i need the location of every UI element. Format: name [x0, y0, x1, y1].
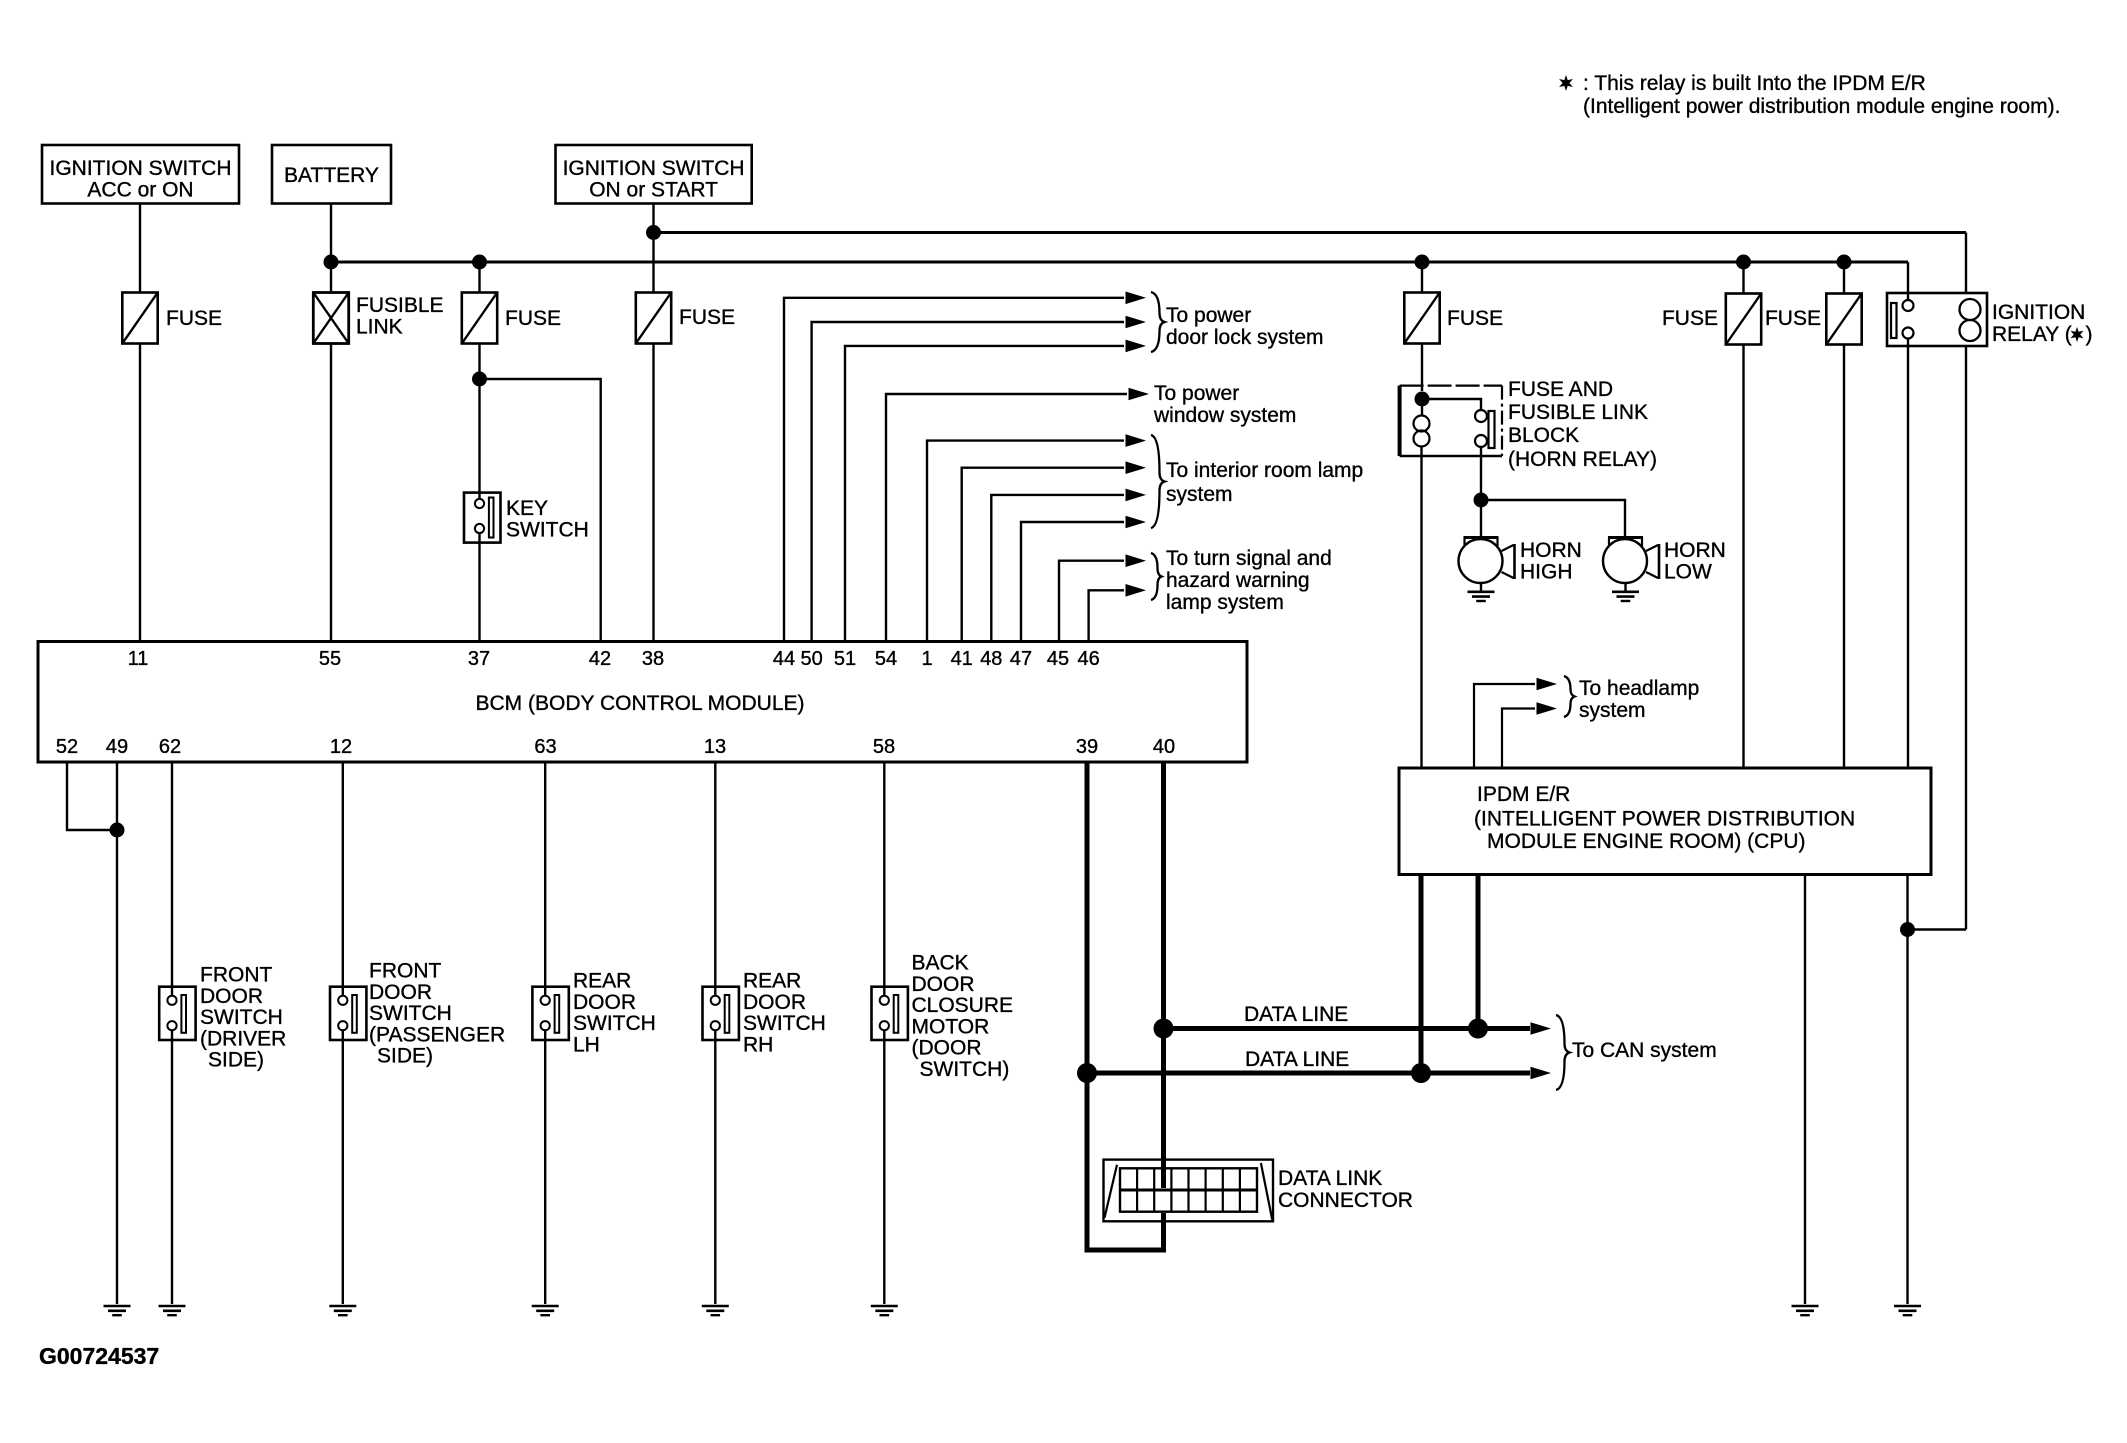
svg-text:lamp system: lamp system [1166, 591, 1284, 614]
wire horn fuse into relay block [1421, 344, 1423, 392]
svg-text:FUSE: FUSE [1662, 307, 1718, 330]
svg-text:REAR: REAR [743, 970, 801, 993]
door switch S1 FRONT DOOR SWITCH (DRIVER SIDE) [159, 987, 195, 1040]
wire upper bus drop to ignition relay coil [1965, 233, 1967, 294]
wire battery bus drop to ignition relay contact [1907, 262, 1909, 299]
svg-text:FUSIBLE LINK: FUSIBLE LINK [1508, 401, 1648, 424]
block IGNITION SWITCH ON or START [556, 145, 752, 204]
svg-text:system: system [1166, 483, 1233, 506]
wire bus to fuse F5 [1742, 262, 1744, 294]
wire fuse F6 to IPDM [1843, 345, 1845, 769]
junction node IPDM data line 1 [1468, 1019, 1488, 1039]
wire BCM pin 49 to ground [116, 762, 118, 1304]
svg-text:SWITCH: SWITCH [200, 1006, 283, 1029]
svg-text:58: 58 [873, 736, 895, 758]
svg-text:DOOR: DOOR [912, 973, 975, 996]
wire IPDM/relay to ground G8 [1906, 875, 1908, 1305]
svg-text:55: 55 [319, 648, 341, 670]
svg-text:MOTOR: MOTOR [912, 1015, 990, 1038]
svg-text:FUSE: FUSE [679, 306, 735, 329]
junction node battery bus at fusible link [324, 255, 339, 270]
arrow to power door lock 2 [1126, 316, 1147, 329]
brace interior lamp group [1151, 435, 1165, 528]
svg-text:G00724537: G00724537 [39, 1343, 159, 1369]
svg-text:FRONT: FRONT [369, 960, 441, 983]
arrow to power door lock 1 [1126, 292, 1147, 305]
arrow data line 2 to CAN [1531, 1067, 1552, 1080]
svg-text:(INTELLIGENT POWER DISTRIBUTIO: (INTELLIGENT POWER DISTRIBUTION [1474, 808, 1855, 831]
svg-text:(HORN RELAY): (HORN RELAY) [1508, 448, 1657, 471]
arrow to headlamp 2 [1537, 702, 1558, 715]
horn relay contact [1422, 399, 1495, 448]
svg-text:To headlamp: To headlamp [1579, 677, 1699, 700]
svg-text:54: 54 [875, 648, 897, 670]
ground of horn HORN LOW [1612, 592, 1639, 601]
svg-text:HORN: HORN [1520, 539, 1582, 562]
svg-text:1: 1 [921, 648, 932, 670]
wire ignition relay coil down [1965, 346, 1967, 930]
wire BCM pin 13 to S4 REAR DOOR SWITCH RH [714, 762, 716, 996]
svg-text:DOOR: DOOR [200, 985, 263, 1008]
svg-text:CONNECTOR: CONNECTOR [1278, 1189, 1413, 1212]
arrow interior lamp 2 [1126, 461, 1147, 474]
door switch S5 BACK DOOR CLOSURE MOTOR (DOOR SWITCH) [872, 987, 908, 1040]
svg-text:SWITCH: SWITCH [369, 1002, 452, 1025]
svg-text:LOW: LOW [1664, 561, 1712, 584]
wire IPDM to data line 2 [1419, 875, 1424, 1074]
wire BCM pin 47 to interior lamp [1021, 522, 1124, 642]
wire horn relay coil to IPDM [1420, 447, 1422, 769]
svg-text:DOOR: DOOR [369, 981, 432, 1004]
svg-text:38: 38 [642, 648, 664, 670]
wire S4 REAR DOOR SWITCH RH to ground [714, 1031, 716, 1305]
brace turn signal group [1151, 553, 1162, 600]
wire BCM pin 12 to S2 FRONT DOOR SWITCH (PASSENGER SIDE) [342, 762, 344, 996]
wire BCM pin 50 to door lock [812, 322, 1124, 642]
arrow interior lamp 1 [1126, 434, 1147, 447]
wire BCM pin 44 to door lock [784, 298, 1124, 642]
junction node relay coil / IPDM wire [1900, 922, 1915, 937]
relay K1 IGNITION RELAY [1887, 293, 1987, 346]
junction node data line 1 [1154, 1019, 1174, 1039]
svg-text:DATA LINE: DATA LINE [1244, 1003, 1348, 1026]
fuse and fusible link block (horn relay) [1400, 386, 1502, 456]
wire IGN ACC to fuse [139, 204, 141, 294]
wire S5 BACK DOOR CLOSURE MOTOR (DOOR SWITCH) to ground [883, 1031, 885, 1305]
wire IPDM to ground G7 [1804, 875, 1806, 1305]
brace door lock group [1151, 292, 1165, 352]
horn HORN HIGH [1459, 538, 1515, 592]
arrow data line 1 to CAN [1531, 1022, 1552, 1035]
door switch S2 FRONT DOOR SWITCH (PASSENGER SIDE) [330, 987, 366, 1040]
fuse F3 (ignition ON/START) [636, 293, 671, 344]
ground of door switch S2 FRONT DOOR SWITCH (PASSENGER SIDE) [329, 1306, 356, 1315]
svg-text:42: 42 [589, 648, 611, 670]
wire S2 FRONT DOOR SWITCH (PASSENGER SIDE) to ground [342, 1031, 344, 1305]
data link connector [1104, 1160, 1274, 1222]
wire to HORN HIGH [1480, 500, 1482, 538]
svg-text:SWITCH): SWITCH) [920, 1058, 1010, 1081]
wire tap to BCM pin 42 [480, 379, 601, 642]
svg-text:BATTERY: BATTERY [284, 164, 379, 187]
ground of door switch S4 REAR DOOR SWITCH RH [702, 1306, 729, 1315]
svg-text:system: system [1579, 699, 1646, 722]
junction node pins 52/49 [110, 823, 125, 838]
svg-text:HIGH: HIGH [1520, 561, 1573, 584]
svg-text:door lock system: door lock system [1166, 326, 1324, 349]
svg-text:11: 11 [128, 648, 149, 670]
svg-text:IGNITION SWITCH: IGNITION SWITCH [563, 157, 745, 180]
svg-text:47: 47 [1010, 648, 1032, 670]
ground of door switch S1 FRONT DOOR SWITCH (DRIVER SIDE) [159, 1306, 186, 1315]
star symbol in relay label [2071, 327, 2084, 342]
svg-text:46: 46 [1077, 648, 1099, 670]
wire fuse F2 to key switch [478, 344, 480, 499]
wire DATA LINE 1 [1164, 1026, 1531, 1031]
wire BCM pin 41 to interior lamp [962, 468, 1124, 642]
svg-text:MODULE ENGINE ROOM) (CPU): MODULE ENGINE ROOM) (CPU) [1487, 830, 1806, 853]
block BATTERY [272, 145, 391, 204]
svg-text:(DOOR: (DOOR [912, 1037, 982, 1060]
wire BCM pin 62 to S1 FRONT DOOR SWITCH (DRIVER SIDE) [171, 762, 173, 996]
horn HORN LOW [1603, 538, 1659, 592]
wire fuse F3 to BCM pin 38 [652, 344, 654, 642]
block BCM (BODY CONTROL MODULE) [38, 642, 1247, 763]
svg-text:37: 37 [468, 648, 490, 670]
door switch S4 REAR DOOR SWITCH RH [703, 987, 739, 1040]
fuse F5 (IPDM) [1726, 294, 1761, 345]
fuse F4 (horn) [1404, 293, 1439, 344]
junction node horn feed [1474, 493, 1489, 508]
svg-text:ACC or ON: ACC or ON [87, 179, 193, 202]
svg-text:DOOR: DOOR [743, 991, 806, 1014]
arrow turn signal 1 [1126, 554, 1147, 567]
svg-text:41: 41 [951, 648, 973, 670]
svg-text:48: 48 [980, 648, 1002, 670]
junction node IPDM data line 2 [1411, 1063, 1431, 1083]
wire S3 REAR DOOR SWITCH LH to ground [544, 1031, 546, 1305]
ground G8 (ignition relay) [1894, 1306, 1921, 1315]
svg-text:SWITCH: SWITCH [506, 519, 589, 542]
ground of door switch S3 REAR DOOR SWITCH LH [532, 1306, 559, 1315]
svg-text:FUSE AND: FUSE AND [1508, 378, 1613, 401]
svg-text:SIDE): SIDE) [208, 1049, 264, 1072]
wire relay coil to IPDM ground wire [1908, 928, 1967, 930]
wire BCM pin 51 to door lock [845, 346, 1124, 642]
wire ignition relay contact to IPDM [1907, 339, 1909, 769]
svg-text:To CAN system: To CAN system [1572, 1039, 1717, 1062]
arrow to headlamp 1 [1537, 678, 1558, 691]
svg-text:39: 39 [1076, 736, 1098, 758]
svg-text:To turn signal and: To turn signal and [1166, 547, 1332, 570]
wire IPDM to data line 1 [1476, 875, 1481, 1029]
svg-text:hazard warning: hazard warning [1166, 569, 1310, 592]
svg-text:SIDE): SIDE) [377, 1045, 433, 1068]
wire fuse F5 to IPDM [1742, 345, 1744, 769]
junction node horn relay coil/contact [1415, 392, 1430, 407]
ground of door switch S5 BACK DOOR CLOSURE MOTOR (DOOR SWITCH) [871, 1306, 898, 1315]
wire IPDM to headlamp 1 [1474, 684, 1535, 768]
key switch [464, 493, 501, 543]
svg-text:(Intelligent power distributio: (Intelligent power distribution module e… [1583, 95, 2060, 118]
svg-text:): ) [2086, 323, 2093, 346]
svg-text:50: 50 [800, 648, 822, 670]
svg-text:DATA LINK: DATA LINK [1278, 1167, 1382, 1190]
ignition relay contact points [1903, 300, 1914, 311]
svg-text:To power: To power [1154, 382, 1239, 405]
svg-text:44: 44 [773, 648, 795, 670]
ground G7 (IPDM) [1792, 1306, 1819, 1315]
arrow interior lamp 3 [1126, 489, 1147, 502]
svg-text:: This relay is built Into the: : This relay is built Into the IPDM E/R [1583, 72, 1926, 95]
fuse F1 (ignition ACC) [122, 293, 157, 344]
fusible link FL1 [313, 293, 348, 344]
svg-text:KEY: KEY [506, 497, 548, 520]
junction node battery bus at fuse F6 [1837, 255, 1852, 270]
arrow interior lamp 4 [1126, 516, 1147, 529]
junction node IGN ON/START bus [646, 225, 661, 240]
svg-text:LH: LH [573, 1033, 600, 1056]
wire BCM pin 52 to pin 49 join [67, 762, 113, 830]
svg-text:To interior room lamp: To interior room lamp [1166, 459, 1363, 482]
ground of horn HORN HIGH [1468, 592, 1495, 601]
svg-text:13: 13 [704, 736, 726, 758]
fuse F2 (key switch feed) [462, 293, 497, 344]
svg-text:FUSE: FUSE [1765, 307, 1821, 330]
wire S1 FRONT DOOR SWITCH (DRIVER SIDE) to ground [171, 1031, 173, 1305]
svg-text:IGNITION: IGNITION [1992, 301, 2085, 324]
wire BCM pin 46 to turn signal [1089, 590, 1124, 641]
block IGNITION SWITCH ACC or ON [42, 145, 239, 204]
wire BCM pin 48 to interior lamp [991, 495, 1124, 642]
svg-text:LINK: LINK [356, 316, 403, 339]
wire upper bus (ignition ON/START feed) [654, 231, 1967, 234]
svg-text:(DRIVER: (DRIVER [200, 1027, 286, 1050]
svg-text:FUSE: FUSE [1447, 307, 1503, 330]
wire IGN ON/START down to fuse [652, 204, 654, 293]
svg-text:DOOR: DOOR [573, 991, 636, 1014]
svg-text:52: 52 [56, 736, 78, 758]
svg-text:HORN: HORN [1664, 539, 1726, 562]
svg-text:FUSIBLE: FUSIBLE [356, 294, 444, 317]
ground G1 (pin 49) [104, 1306, 131, 1315]
wire DATA LINE 2 [1087, 1071, 1530, 1076]
svg-text:45: 45 [1047, 648, 1069, 670]
arrow turn signal 2 [1126, 584, 1147, 597]
svg-text:(PASSENGER: (PASSENGER [369, 1023, 505, 1046]
brace headlamp [1564, 676, 1575, 717]
junction node battery bus at horn fuse [1415, 255, 1430, 270]
svg-text:63: 63 [534, 736, 556, 758]
svg-text:SWITCH: SWITCH [743, 1012, 826, 1035]
ignition relay coil [1960, 299, 1981, 320]
wire BCM pin 58 to S5 BACK DOOR CLOSURE MOTOR (DOOR SWITCH) [883, 762, 885, 996]
junction node data line 2 [1077, 1063, 1097, 1083]
svg-text:51: 51 [834, 648, 856, 670]
wire bus to horn fuse [1421, 262, 1423, 293]
svg-text:BACK: BACK [912, 952, 969, 975]
svg-text:FRONT: FRONT [200, 964, 272, 987]
wire BCM pin 1 to interior lamp [927, 441, 1124, 642]
svg-text:SWITCH: SWITCH [573, 1012, 656, 1035]
svg-text:49: 49 [106, 736, 128, 758]
wire bus to fuse F2 [478, 262, 480, 293]
svg-text:BCM (BODY CONTROL MODULE): BCM (BODY CONTROL MODULE) [475, 692, 804, 715]
arrow to power door lock 3 [1126, 340, 1147, 353]
wire lower bus (battery feed) [331, 261, 1908, 264]
svg-text:DATA LINE: DATA LINE [1245, 1048, 1349, 1071]
svg-text:REAR: REAR [573, 970, 631, 993]
block IPDM E/R (CPU) [1399, 768, 1931, 875]
wire BCM pin 40 (data) to data link connector [1161, 762, 1166, 1188]
svg-text:CLOSURE: CLOSURE [912, 994, 1014, 1017]
wire fuse F1 to BCM pin 11 [139, 344, 141, 642]
svg-text:BLOCK: BLOCK [1508, 424, 1579, 447]
wire BATTERY down [330, 204, 332, 293]
wire BCM pin 45 to turn signal [1059, 561, 1124, 642]
wire IPDM to headlamp 2 [1502, 709, 1535, 769]
wire fusible link to BCM pin 55 [330, 344, 332, 642]
horn relay coil [1414, 399, 1430, 447]
svg-text:FUSE: FUSE [505, 307, 561, 330]
svg-text:window system: window system [1153, 404, 1296, 427]
svg-text:ON or START: ON or START [589, 179, 718, 202]
wire bus to fuse F6 [1843, 262, 1845, 294]
wire to HORN LOW [1481, 500, 1625, 538]
arrow to power window [1129, 388, 1150, 401]
wire BCM pin 63 to S3 REAR DOOR SWITCH LH [544, 762, 546, 996]
wire horn relay contact to horns [1480, 447, 1482, 500]
fuse F6 (IPDM) [1826, 294, 1861, 345]
svg-text:IPDM E/R: IPDM E/R [1477, 783, 1570, 806]
brace CAN system [1556, 1015, 1570, 1090]
junction node battery bus at fuse F5 [1736, 255, 1751, 270]
svg-text:RELAY (: RELAY ( [1992, 323, 2072, 346]
junction node pin 42 tap [472, 372, 487, 387]
svg-text:RH: RH [743, 1033, 773, 1056]
star symbol in note [1559, 75, 1573, 91]
svg-text:FUSE: FUSE [166, 307, 222, 330]
svg-text:12: 12 [330, 736, 352, 758]
ignition relay contact bar [1891, 303, 1897, 338]
svg-text:IGNITION SWITCH: IGNITION SWITCH [50, 157, 232, 180]
door switch S3 REAR DOOR SWITCH LH [532, 987, 568, 1040]
wire BCM pin 39 (data) to data link connector [1087, 762, 1164, 1250]
svg-text:62: 62 [159, 736, 181, 758]
svg-text:To power: To power [1166, 304, 1251, 327]
svg-text:40: 40 [1153, 736, 1175, 758]
junction node battery bus at fuse F2 [472, 255, 487, 270]
wire key switch to BCM pin 37 [478, 534, 480, 642]
wire BCM pin 54 to power window [886, 394, 1127, 642]
